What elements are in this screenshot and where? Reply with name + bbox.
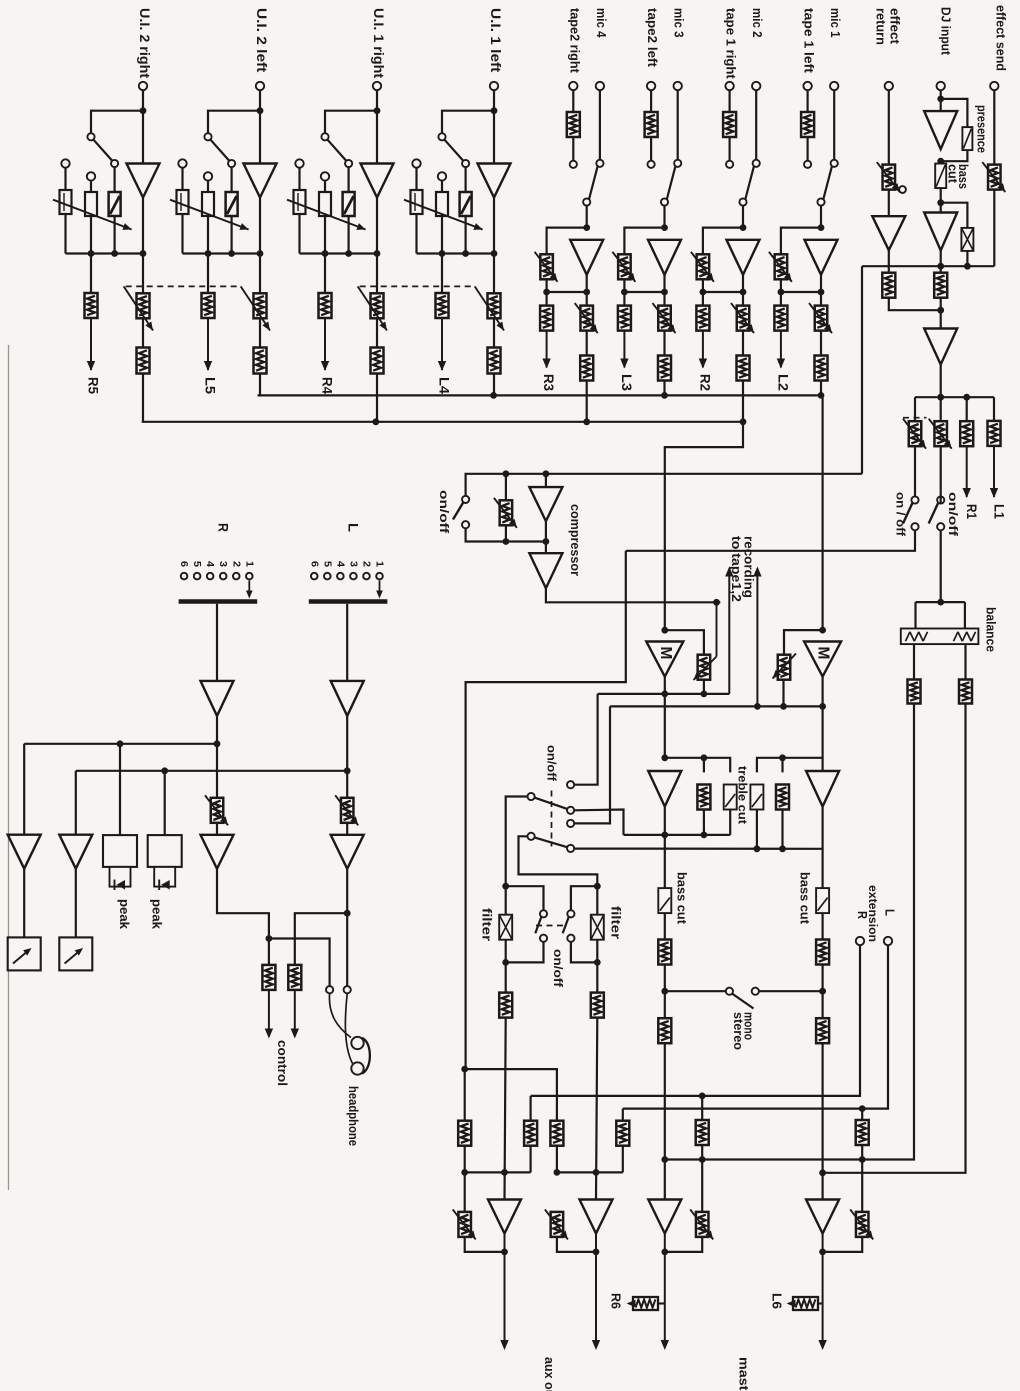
switch pole U.I. 1 left [462, 160, 469, 167]
label extension R [855, 911, 869, 919]
svg-text:U.I. 1 right: U.I. 1 right [371, 8, 386, 79]
svg-text:mic 1: mic 1 [828, 8, 843, 38]
svg-text:L: L [346, 523, 362, 532]
wire selector1 pole to filter L [506, 797, 528, 915]
label L6 [770, 1293, 785, 1309]
wire to bus mic 1 [820, 381, 822, 396]
tone pot B U.I. 2 left [202, 192, 214, 216]
wire bass left b [664, 964, 666, 1018]
switch pole U.I. 2 right [111, 160, 118, 167]
switch pole mic 4 [583, 198, 590, 205]
label R input 2 [230, 561, 242, 567]
label tape2 left [645, 8, 660, 68]
label selector on/off [545, 745, 559, 782]
switch blade U.I. 2 right [94, 140, 112, 161]
output arrow aux R [592, 1234, 600, 1350]
wire U.I. 2 right tone B [90, 181, 92, 192]
wire L1 res [993, 397, 995, 421]
amplifier master R [806, 1200, 839, 1234]
wire filter R bypass top [571, 886, 597, 910]
junction M right input [819, 627, 826, 634]
svg-text:filter: filter [480, 908, 494, 941]
wire amp out U.I. 2 left [259, 198, 261, 254]
node U.I. 2 right input [140, 107, 147, 114]
wire tone B down U.I. 2 right [90, 216, 92, 254]
treble input line right [757, 758, 823, 773]
wire pot4 chain a [861, 1109, 863, 1120]
label L input 3 [347, 561, 359, 567]
amplifier mic 2 [727, 240, 760, 275]
wire filter R down [596, 940, 598, 993]
svg-text:cut: cut [946, 164, 960, 184]
junction peak L [161, 767, 168, 774]
junction filter L top [502, 883, 509, 890]
svg-text:4: 4 [204, 561, 216, 567]
svg-text:headphone: headphone [346, 1086, 360, 1146]
junction R mic 1 [818, 289, 825, 296]
label recording line1 [742, 536, 756, 598]
switch blade mic 1 [823, 167, 831, 199]
contact filter bypass L bottom [540, 935, 547, 942]
junction pot4 top [859, 1105, 866, 1112]
pot master R [850, 1209, 873, 1239]
label bass line1 [956, 164, 970, 189]
svg-text:master: master [737, 1357, 752, 1391]
switch pole U.I. 2 left [228, 160, 235, 167]
svg-text:balance: balance [984, 607, 998, 652]
wire to tone switch U.I. 2 left [208, 111, 260, 134]
resistor send U.I. 1 right [319, 293, 332, 318]
wire tone B down U.I. 2 left [207, 216, 209, 254]
junction treble out left [661, 832, 668, 839]
amplifier effect return [872, 216, 905, 250]
switch blade U.I. 1 right [328, 140, 346, 161]
wire eff ret amp out [888, 251, 890, 273]
wire DJ amp3 out [940, 365, 942, 422]
junction bus L / U.I.1 left [490, 392, 497, 399]
label recording line2 [729, 536, 743, 602]
wiper terminal effect return [899, 186, 906, 193]
output arrow control R [265, 990, 273, 1039]
tone terminal B U.I. 1 right [321, 172, 329, 180]
wire to fader U.I. 1 left [493, 254, 495, 294]
label filter on/off [551, 949, 565, 988]
node mic 4 [583, 224, 590, 231]
treble cut box left [724, 785, 737, 810]
bass cut box DJ [935, 164, 946, 189]
wire tape2 left to contact [650, 137, 652, 160]
switch contact tape 1 right [726, 161, 733, 168]
wire DJ amp2 out [940, 251, 942, 273]
amplifier meter L [59, 835, 92, 869]
switch contact tape 1 left [804, 161, 811, 168]
terminal headphone a [326, 986, 333, 993]
wire M right to selector [574, 706, 610, 823]
contact mono [726, 988, 733, 995]
junction R mic 3 [661, 289, 668, 296]
label treble cut [736, 766, 750, 824]
label headphone [346, 1086, 360, 1146]
fader pot U.I. 1 left [488, 293, 501, 318]
fader arrow U.I. 1 right [358, 286, 387, 330]
switch contact U.I. 2 left [204, 133, 211, 140]
junction bus R end / mic2 [740, 418, 747, 425]
wire U.I. 2 right tone A [64, 168, 66, 190]
tone bus U.I. 2 left [183, 252, 261, 254]
output arrow R5 [87, 318, 95, 371]
selector input L2 [363, 573, 370, 580]
node U.I. 1 left input [491, 107, 498, 114]
label on/off 2 [946, 492, 960, 537]
wire pole to tone pot U.I. 2 left [231, 167, 233, 192]
amplifier output 2 [580, 1200, 613, 1234]
svg-text:filter: filter [609, 906, 623, 939]
node DJ lamp tap [937, 199, 944, 206]
wire meter R [23, 869, 25, 937]
resistor tape2 left [645, 112, 658, 137]
wire fader to res U.I. 2 left [259, 318, 261, 347]
wire box A bottom [529, 1146, 531, 1173]
amplifier compressor 2 [529, 553, 562, 588]
resistor tape 1 left [801, 112, 814, 137]
terminal extension L [884, 937, 892, 945]
presence box [962, 127, 972, 150]
resistor tape 1 right [723, 112, 736, 137]
label R input 3 [217, 561, 229, 567]
wire aux L node [464, 1146, 466, 1212]
wire U.I. 1 right tone B [324, 181, 326, 192]
junction lamp / effect bus [964, 263, 971, 270]
label R input 4 [204, 561, 216, 567]
meter line R [24, 743, 217, 745]
amplifier U.I. 2 right [127, 164, 160, 198]
resistor mix U.I. 2 left [254, 348, 267, 374]
selector bar R [179, 599, 258, 604]
filter box L [499, 915, 512, 940]
svg-text:effect send: effect send [994, 5, 1009, 71]
resistor balance R [959, 680, 972, 704]
wire peak R [119, 744, 121, 835]
bus right channels [142, 421, 743, 423]
wire treble box right bottom [756, 810, 758, 849]
junction send row R1 [963, 394, 970, 401]
wire pot down mic 4 [545, 279, 547, 292]
node mic 2 [740, 224, 747, 231]
resistor send mic 2 [696, 306, 709, 331]
svg-text:2: 2 [360, 561, 372, 567]
gang dashes send pots [903, 417, 927, 419]
wire pot1 to out [465, 1237, 505, 1252]
tone pot C U.I. 2 left [226, 192, 238, 216]
junction master R out [819, 1249, 826, 1256]
blade filter bypass R [563, 917, 569, 933]
wire tape 1 left to contact [806, 137, 808, 160]
switch pole mic 1 [817, 198, 824, 205]
resistor bypass B [550, 1121, 563, 1146]
wire to bus mic 3 [663, 381, 665, 396]
label balance [984, 607, 998, 652]
junction amp aux R in [593, 1169, 600, 1176]
fader pot U.I. 2 right [137, 293, 150, 318]
wire treble right out [821, 807, 823, 889]
junction bus R / mic4 [583, 418, 590, 425]
wire to send res U.I. 1 left [441, 254, 443, 293]
resistor mix mic 4 [580, 356, 593, 381]
wire balance L out [913, 644, 915, 679]
pot send 2 [929, 419, 952, 449]
wire bar to amp L [346, 604, 348, 681]
tone bus U.I. 1 right [300, 252, 378, 254]
treble cut box right [750, 785, 763, 810]
junction DJ / eff ret [937, 307, 944, 314]
output arrow R2 [699, 331, 707, 369]
label R sum [216, 523, 232, 532]
wire pot1 top [914, 397, 916, 422]
junction aux L [461, 1169, 468, 1176]
wire amp out U.I. 1 left [493, 198, 495, 254]
svg-text:return: return [874, 8, 888, 45]
wire pot down mic 3 [623, 279, 625, 292]
junction R mic 2 [740, 289, 747, 296]
tone pot C U.I. 1 right [343, 192, 355, 216]
wire to bus mic 2 [742, 381, 744, 422]
tone pot C U.I. 1 left [460, 192, 472, 216]
wire treble left out [664, 807, 666, 889]
selector input R6 [181, 573, 188, 580]
stub sw2 [940, 497, 942, 504]
switch contact tape2 right [570, 161, 577, 168]
junction balance in [937, 599, 944, 606]
wire filter L bypass top [506, 886, 544, 910]
label R1 [964, 504, 979, 519]
wire to send res U.I. 2 right [90, 254, 92, 293]
resistor bass left [658, 940, 671, 965]
svg-text:on/off: on/off [545, 745, 559, 782]
wire U.I. 1 left tone B [441, 181, 443, 192]
input terminal U.I. 1 right [373, 82, 381, 90]
resistor R6 [627, 1297, 665, 1310]
compressor output line [546, 589, 720, 603]
M left node line [598, 693, 730, 695]
selector wiper arrow L [376, 581, 383, 599]
wire mic 2 fader [742, 292, 744, 306]
wire pot3 chain a [701, 1096, 703, 1120]
junction pot3 top [699, 1093, 706, 1100]
svg-text:R1: R1 [964, 504, 979, 519]
svg-text:M: M [657, 647, 674, 660]
wire comp pot bottom [505, 525, 507, 541]
svg-text:compressor: compressor [568, 504, 582, 576]
wire U.I. 1 right input [376, 90, 378, 163]
node line mic 2 [703, 291, 743, 293]
svg-text:presence: presence [975, 105, 989, 153]
junction bus L / mic3 [661, 392, 668, 399]
svg-text:L5: L5 [203, 377, 218, 395]
svg-text:1: 1 [243, 561, 255, 567]
wire to fader U.I. 2 left [259, 254, 261, 294]
wire tone A down U.I. 1 left [415, 214, 417, 254]
peak detector L [148, 835, 182, 890]
output arrow L4 [438, 318, 446, 371]
output arrow L5 [204, 318, 212, 371]
blade selector 1 [534, 798, 567, 809]
pot compressor [494, 498, 517, 528]
wire pot4 to out [823, 1237, 863, 1252]
tone terminal A U.I. 1 left [412, 159, 420, 167]
junction eq right [779, 754, 786, 761]
wire switch2 to balance [940, 530, 942, 602]
label effect return line2 [874, 8, 888, 45]
tone pot A U.I. 1 right [294, 190, 306, 214]
pole selector 2 [528, 833, 535, 840]
peak detector R [103, 835, 137, 890]
junction control R [266, 935, 273, 942]
svg-text:tape2 right: tape2 right [567, 8, 582, 74]
terminal DJ input [937, 82, 945, 90]
filter bypass gang dashes [536, 925, 567, 927]
switch blade mic 4 [589, 167, 597, 199]
wire balance R in [964, 602, 966, 628]
junction comp pot out [503, 538, 510, 545]
selector input R2 [233, 573, 240, 580]
junction tone C U.I. 1 left [462, 250, 469, 257]
wire to bus U.I. 1 right [376, 374, 378, 422]
svg-text:3: 3 [347, 561, 359, 567]
wire monitor R pot [216, 744, 218, 798]
svg-text:4: 4 [334, 561, 346, 567]
wire amp out mic 2 [742, 275, 744, 292]
input pot mic 3 [612, 252, 635, 282]
pot master L [690, 1209, 713, 1239]
switch contact U.I. 2 right [87, 133, 94, 140]
wire meter L amp [75, 771, 77, 835]
wire extension L [623, 945, 888, 1108]
switch pole mic 2 [739, 198, 746, 205]
wire balance L to master [665, 704, 914, 1160]
svg-text:tape 1 right: tape 1 right [724, 8, 739, 79]
wire M right pot top [784, 630, 823, 656]
wire to lamp box [941, 203, 968, 229]
label L3 [619, 374, 634, 392]
amplifier treble left [648, 771, 681, 807]
junction amp out U.I. 2 left [257, 250, 264, 257]
svg-text:L4: L4 [437, 377, 452, 395]
wire tone B down U.I. 1 left [441, 216, 443, 254]
wire selector2 pole to filter R [519, 836, 598, 915]
node mic 1 [818, 224, 825, 231]
resistor L6 [787, 1297, 823, 1310]
tone pot A U.I. 2 left [177, 190, 189, 214]
switch contact mic 3 [674, 160, 681, 167]
resistor tape2 right [567, 112, 580, 137]
selector input R4 [207, 573, 214, 580]
label master [737, 1357, 752, 1391]
svg-text:1: 1 [374, 561, 386, 567]
resistor mix U.I. 1 right [371, 348, 384, 374]
junction tone C U.I. 2 left [228, 250, 235, 257]
amplifier mic 4 [570, 240, 603, 275]
wire box A top [529, 1096, 531, 1122]
wire tone A down U.I. 2 left [181, 214, 183, 254]
contact filter bypass L top [540, 910, 547, 917]
wire to send res U.I. 2 left [207, 254, 209, 293]
pot M left [698, 655, 711, 680]
tone pot B U.I. 2 right [85, 192, 97, 216]
label cut line2 [946, 164, 960, 184]
input terminal tape2 right [569, 82, 577, 90]
lamp box DJ [961, 228, 973, 251]
wire tape 1 right to contact [728, 137, 730, 160]
wire fader to res U.I. 1 right [376, 318, 378, 347]
junction box B [554, 1169, 561, 1176]
wire pot2 to out [557, 1237, 596, 1252]
output arrow master R [818, 1234, 826, 1350]
wire mic 4 fader [586, 292, 588, 306]
wire tone C down U.I. 2 right [113, 216, 115, 254]
wire box B bottom [556, 1146, 558, 1173]
selector input L1 [376, 573, 383, 580]
wire fader to res U.I. 2 right [142, 318, 144, 347]
fader arrow U.I. 2 right [124, 286, 153, 330]
blade filter bypass L [535, 917, 541, 933]
junction amp out U.I. 1 left [491, 250, 498, 257]
svg-text:tape2 left: tape2 left [645, 8, 660, 68]
switch blade on/off 1 [903, 503, 912, 524]
label extension L [883, 909, 897, 916]
balance bracket [916, 601, 965, 603]
resistor R1 [960, 421, 973, 446]
svg-text:stereo: stereo [731, 1012, 745, 1050]
node mic 3 [661, 224, 668, 231]
svg-text:mic 3: mic 3 [672, 8, 687, 38]
junction master L out [661, 1249, 668, 1256]
output arrow control L [291, 990, 299, 1039]
fader arrow U.I. 1 left [475, 286, 504, 330]
pole selector 1 [528, 793, 535, 800]
wire eq left down [703, 758, 705, 773]
junction M right node [819, 703, 826, 710]
junction bus L end / mic1 [818, 392, 825, 399]
wire sum amp out R [216, 716, 218, 743]
svg-text:on/off: on/off [437, 490, 451, 534]
wire mic 4 send [545, 292, 547, 306]
wire amp out mic 1 [820, 275, 822, 292]
wire filter L down [505, 940, 507, 993]
svg-text:2: 2 [230, 561, 242, 567]
amplifier DJ 1 [924, 111, 957, 149]
wire tape 1 right [728, 90, 730, 112]
tone bus U.I. 2 right [66, 252, 144, 254]
resistor mix mic 2 [737, 356, 750, 381]
meter L [59, 937, 92, 970]
svg-text:tape 1 left: tape 1 left [802, 8, 817, 74]
wire presence return [941, 150, 968, 161]
wire monitor L pot [346, 771, 348, 798]
tone gang arrow U.I. 1 right [287, 200, 366, 230]
output arrow L1 [990, 446, 998, 498]
pot send 1 [903, 419, 926, 449]
selector input L6 [311, 573, 318, 580]
wire U.I. 1 right tone A [298, 168, 300, 190]
wire eq right bottom [781, 810, 783, 849]
mixer amp M left [646, 642, 683, 677]
amplifier meter R [8, 835, 41, 869]
switch contact mic 4 [596, 160, 603, 167]
label L input 5 [321, 561, 333, 567]
wire U.I. 2 left tone A [181, 168, 183, 190]
svg-text:R: R [855, 911, 869, 919]
junction M left node [661, 691, 668, 698]
